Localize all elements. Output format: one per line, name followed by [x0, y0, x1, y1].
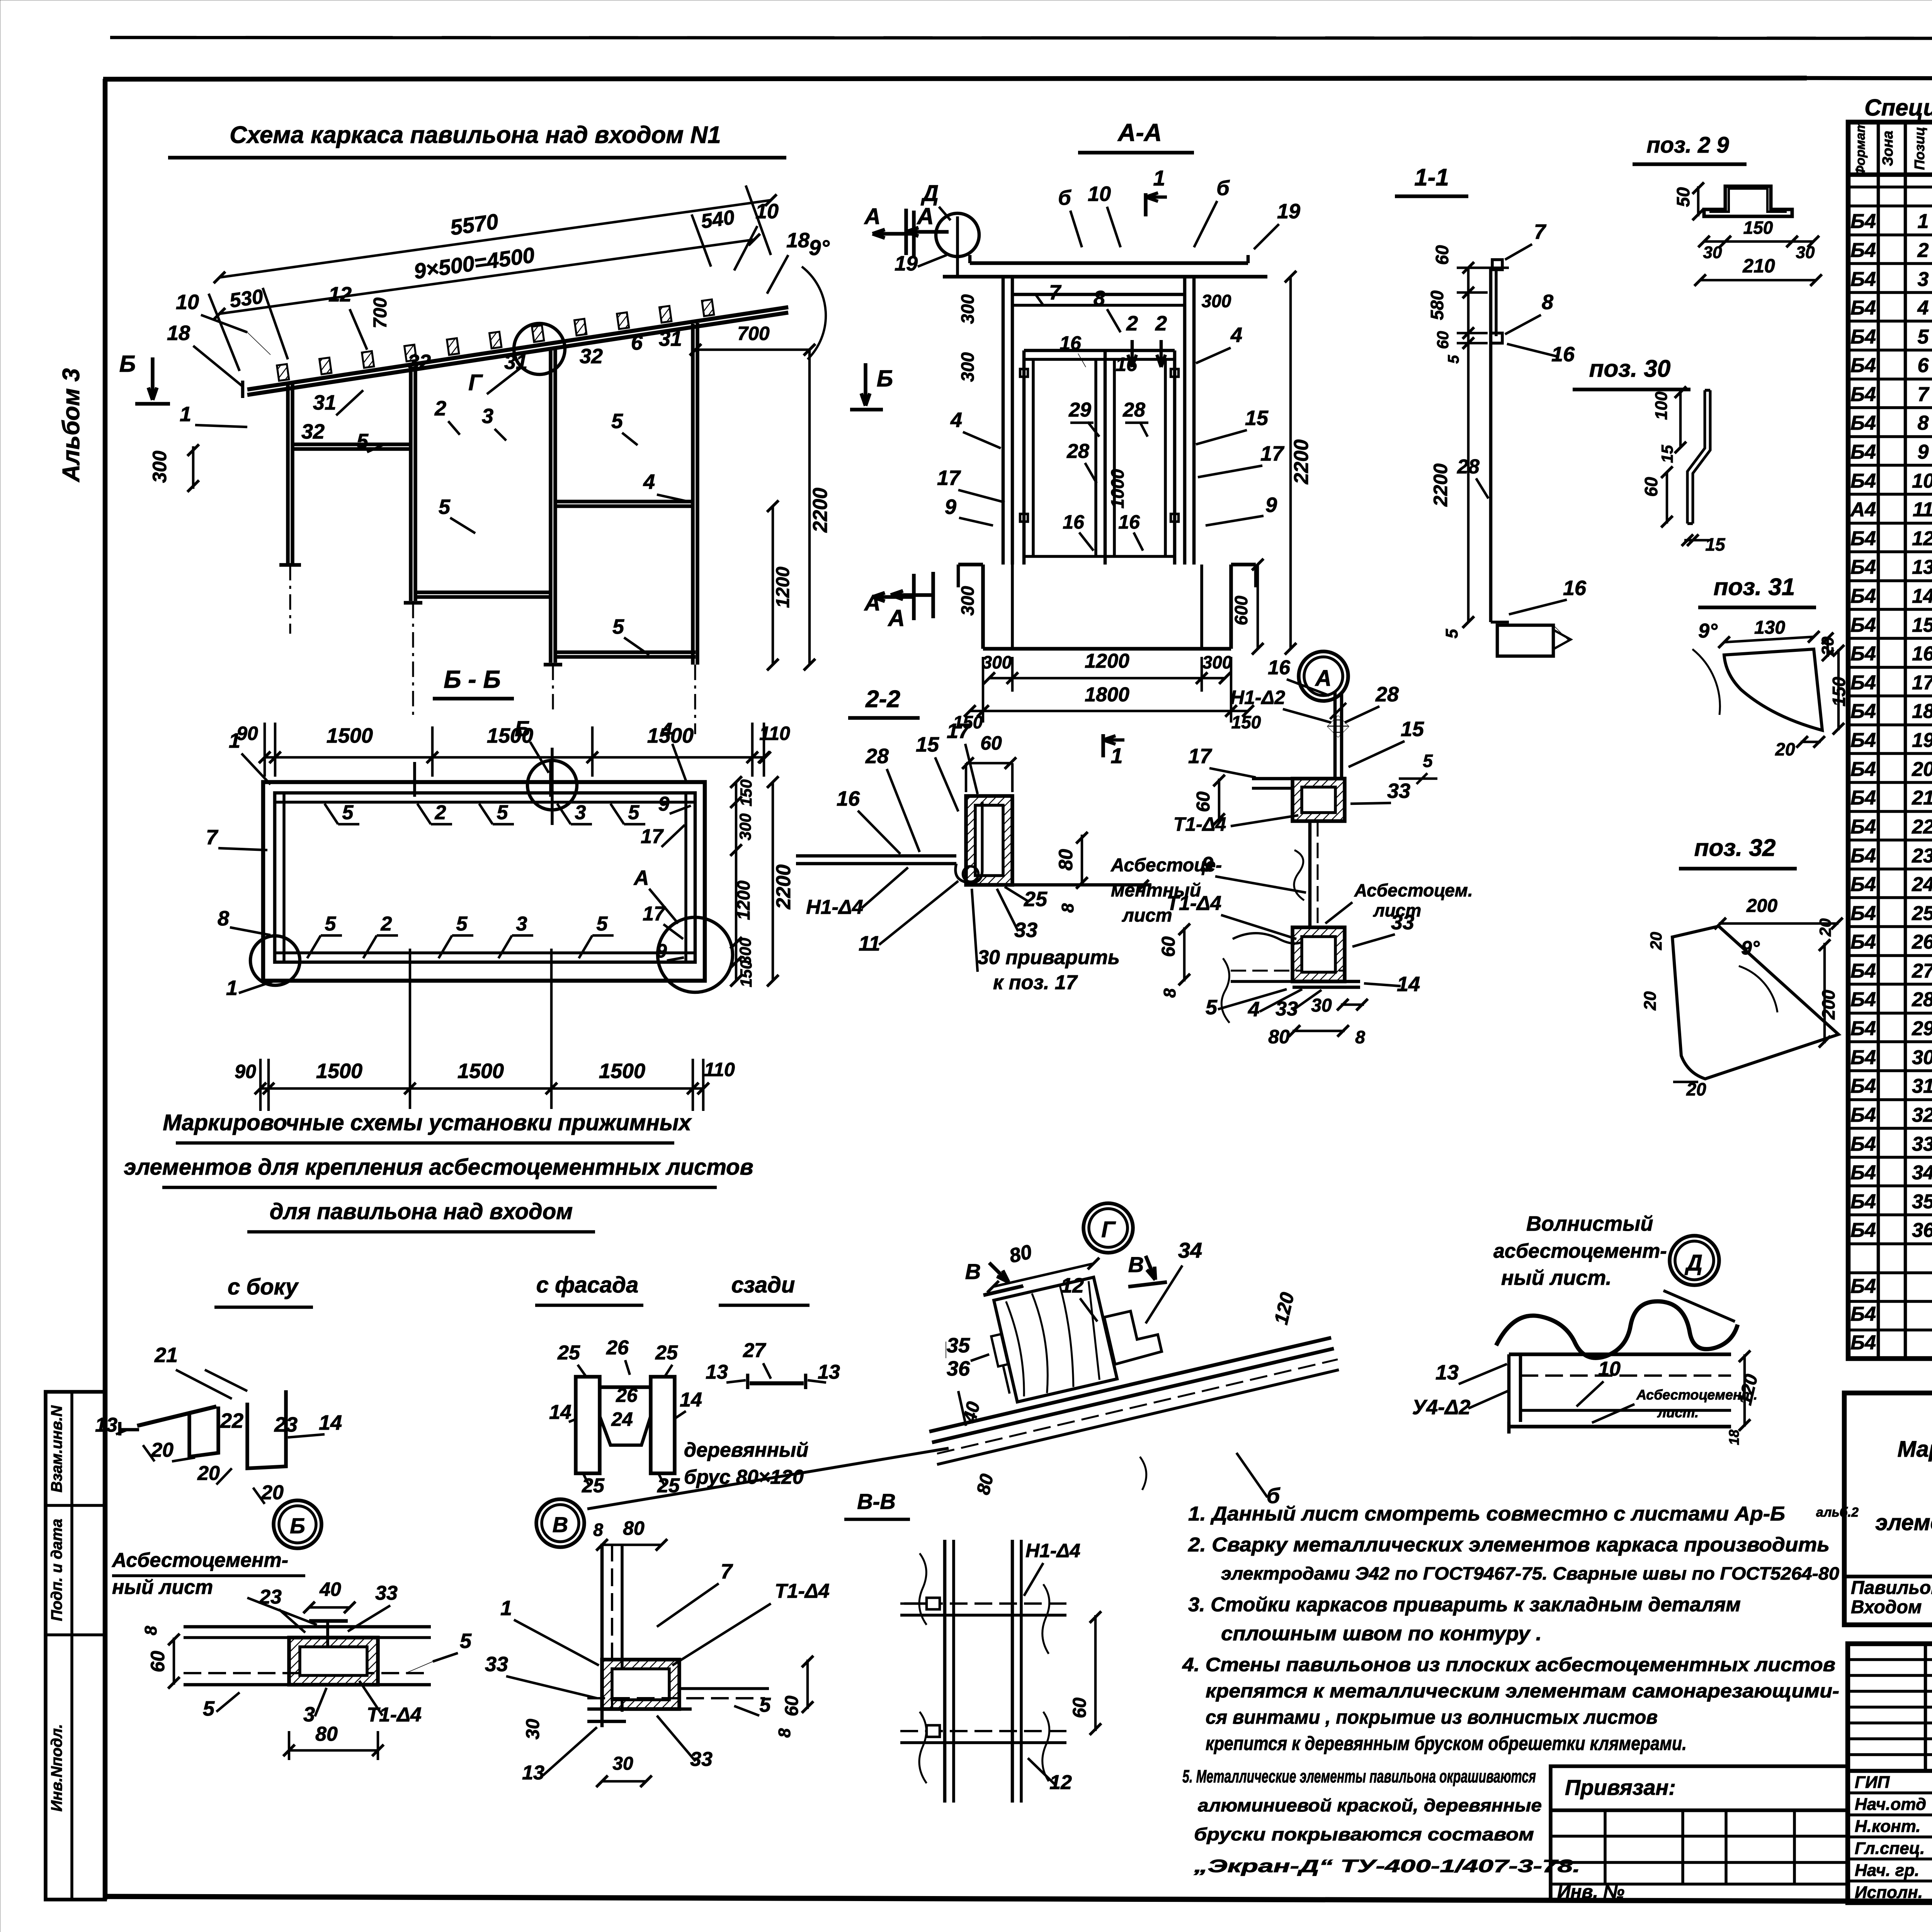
mid column 2 [549, 348, 553, 663]
svg-text:А: А [1315, 666, 1332, 691]
facade scheme columns 25-26-25 [576, 1377, 600, 1473]
svg-text:А: А [916, 203, 934, 229]
svg-text:5. Металлические элементы па: 5. Металлические элементы павильона окра… [1182, 1766, 1536, 1786]
svg-text:9: 9 [658, 793, 670, 815]
svg-text:поз. 2 9: поз. 2 9 [1646, 133, 1729, 158]
svg-text:32: 32 [408, 350, 431, 374]
svg-text:13: 13 [1912, 556, 1932, 578]
svg-text:Б4: Б4 [1850, 988, 1876, 1011]
svg-text:18: 18 [1726, 1430, 1742, 1445]
svg-text:Исполн.: Исполн. [1855, 1883, 1923, 1902]
svg-text:28: 28 [1375, 683, 1399, 706]
svg-text:сзади: сзади [731, 1272, 795, 1298]
svg-text:13: 13 [1435, 1361, 1459, 1384]
svg-text:поз. 31: поз. 31 [1714, 574, 1795, 600]
svg-text:ный лист: ный лист [112, 1576, 213, 1599]
svg-text:28: 28 [1912, 988, 1932, 1011]
svg-text:2: 2 [1917, 239, 1929, 262]
detail D box [1509, 1352, 1731, 1356]
svg-text:Павильон над: Павильон над [1851, 1578, 1932, 1598]
svg-text:90: 90 [235, 1061, 256, 1082]
svg-text:7: 7 [1049, 281, 1062, 304]
svg-text:19: 19 [895, 252, 918, 275]
svg-text:32: 32 [580, 345, 603, 368]
svg-text:В: В [965, 1259, 981, 1284]
B-B bottom dims [260, 1087, 703, 1090]
svg-text:21: 21 [1912, 787, 1932, 809]
svg-text:30: 30 [1912, 1046, 1932, 1069]
svg-text:5: 5 [460, 1629, 472, 1653]
svg-text:Н1-Δ4: Н1-Δ4 [1026, 1540, 1080, 1561]
svg-text:5: 5 [342, 801, 354, 824]
svg-text:30: 30 [1796, 243, 1815, 262]
svg-text:34: 34 [1178, 1238, 1202, 1262]
svg-text:Привязан:: Привязан: [1565, 1775, 1676, 1799]
svg-text:26: 26 [616, 1384, 638, 1406]
A-A top beam [970, 261, 1248, 265]
svg-text:4: 4 [1248, 998, 1260, 1021]
svg-text:300: 300 [1202, 652, 1232, 672]
svg-text:60: 60 [1158, 936, 1179, 957]
svg-text:22: 22 [1912, 816, 1932, 838]
roof clips pos 31/32 [277, 364, 289, 381]
svg-text:40: 40 [319, 1578, 341, 1600]
svg-text:150: 150 [1231, 712, 1261, 732]
svg-text:300: 300 [957, 586, 978, 616]
svg-text:20: 20 [1912, 758, 1932, 781]
svg-text:7: 7 [721, 1560, 733, 1583]
pos31 plate [1724, 649, 1822, 730]
B-B dim 2200 [772, 782, 774, 981]
svg-text:14: 14 [319, 1411, 342, 1434]
svg-text:Взам.инв.N: Взам.инв.N [48, 1405, 65, 1492]
detail A vertical member [1308, 821, 1312, 927]
svg-text:Инв.Nподл.: Инв.Nподл. [48, 1724, 65, 1812]
svg-text:14: 14 [549, 1401, 571, 1423]
spec table column lines [1877, 122, 1880, 1359]
svg-text:Б4: Б4 [1850, 1275, 1876, 1298]
svg-text:19: 19 [1912, 729, 1932, 752]
svg-text:1200: 1200 [733, 880, 753, 920]
svg-text:15: 15 [916, 733, 939, 756]
svg-text:Б4: Б4 [1850, 1332, 1876, 1354]
svg-text:2: 2 [434, 397, 446, 420]
svg-text:18: 18 [1912, 700, 1932, 723]
svg-text:Б4: Б4 [1850, 845, 1876, 867]
svg-text:16: 16 [1268, 656, 1291, 679]
svg-text:ГИП: ГИП [1855, 1773, 1890, 1792]
svg-text:к поз. 17: к поз. 17 [993, 971, 1078, 994]
svg-text:7: 7 [1918, 383, 1930, 406]
detail A circle [1299, 651, 1348, 701]
svg-text:5: 5 [628, 801, 640, 824]
svg-text:Позиц: Позиц [1912, 127, 1927, 170]
V-V drawing [943, 1540, 947, 1803]
detail B circle [274, 1500, 321, 1548]
svg-text:Схема каркаса павильона над вх: Схема каркаса павильона над входом N1 [230, 122, 721, 148]
svg-text:Б4: Б4 [1850, 268, 1876, 291]
detail A top sheet [1333, 692, 1337, 779]
svg-text:10: 10 [176, 291, 199, 314]
svg-text:8: 8 [1542, 291, 1553, 314]
svg-text:А4: А4 [1850, 498, 1876, 521]
left bottom chord [293, 442, 411, 446]
B-B plan inner rect [275, 793, 695, 962]
detail G bolt [991, 1334, 1014, 1395]
svg-text:8: 8 [775, 1728, 794, 1738]
A-A door leaves [1024, 349, 1175, 352]
svg-text:20: 20 [151, 1439, 173, 1461]
svg-text:1800: 1800 [1085, 684, 1129, 706]
svg-text:60: 60 [1434, 331, 1452, 349]
svg-text:700: 700 [370, 298, 391, 328]
svg-text:15: 15 [1658, 445, 1676, 463]
bottom chord right [555, 655, 696, 659]
svg-text:5: 5 [439, 495, 451, 519]
svg-text:5: 5 [760, 1694, 771, 1716]
privyazan box [1551, 1766, 1848, 1810]
svg-text:с фасада: с фасада [536, 1272, 639, 1298]
svg-text:16: 16 [1063, 511, 1085, 533]
svg-text:8: 8 [141, 1626, 160, 1635]
svg-text:25: 25 [557, 1342, 580, 1364]
svg-text:9: 9 [1202, 853, 1213, 876]
svg-text:32: 32 [301, 420, 325, 443]
svg-text:150: 150 [737, 779, 755, 806]
dim line 9x500=4500 [219, 240, 754, 314]
detail G clip [1104, 1306, 1162, 1364]
svg-text:лист.: лист. [1657, 1405, 1699, 1420]
svg-text:В: В [1128, 1252, 1144, 1277]
svg-text:1-1: 1-1 [1414, 164, 1449, 191]
svg-text:110: 110 [704, 1059, 735, 1080]
svg-text:Марка: Марка [1897, 1437, 1932, 1462]
svg-text:30: 30 [612, 1753, 633, 1774]
svg-text:Зона: Зона [1880, 131, 1896, 166]
svg-text:14: 14 [1397, 973, 1420, 996]
svg-text:16: 16 [1563, 577, 1587, 600]
dim 1200 right [772, 506, 774, 665]
svg-text:1. Данный лист смотреть сов: 1. Данный лист смотреть совместно с лист… [1188, 1503, 1785, 1525]
svg-text:31: 31 [504, 350, 527, 374]
svg-text:9°: 9° [809, 235, 830, 260]
svg-text:Б: Б [515, 716, 530, 741]
svg-text:7: 7 [1534, 220, 1547, 243]
A-A detail D callout [936, 213, 979, 257]
svg-text:6: 6 [631, 331, 643, 354]
svg-text:2200: 2200 [772, 864, 795, 910]
svg-text:31: 31 [659, 327, 682, 350]
svg-text:23: 23 [259, 1586, 282, 1608]
svg-text:13: 13 [818, 1361, 840, 1383]
svg-text:700: 700 [737, 323, 770, 344]
svg-text:5: 5 [611, 410, 623, 433]
svg-text:Б4: Б4 [1850, 614, 1876, 636]
svg-text:300: 300 [957, 352, 978, 382]
spec table row lines [1848, 204, 1932, 207]
svg-text:8: 8 [1058, 903, 1077, 913]
A-A transom [1012, 293, 1185, 296]
svg-text:Входом: Входом [1851, 1597, 1922, 1617]
svg-text:20: 20 [1816, 918, 1834, 937]
svg-text:15: 15 [1245, 406, 1269, 430]
sheet frame bottom border [103, 1896, 1932, 1903]
svg-text:Б4: Б4 [1850, 1075, 1876, 1097]
svg-text:асбестоцемент-: асбестоцемент- [1493, 1240, 1667, 1262]
pos32 plate [1672, 926, 1838, 1079]
svg-text:Б: Б [119, 351, 136, 377]
svg-text:Волнистый: Волнистый [1526, 1212, 1653, 1235]
svg-text:Асбестоцемент-: Асбестоцемент- [111, 1549, 288, 1571]
svg-text:ный лист.: ный лист. [1501, 1266, 1612, 1289]
svg-text:крепится к деревянным бруско: крепится к деревянным бруском обрешетки … [1206, 1733, 1687, 1754]
title block signature rows [1848, 1791, 1932, 1794]
svg-text:210: 210 [1742, 255, 1775, 277]
svg-text:Б4: Б4 [1850, 383, 1876, 406]
mid rail right bay [555, 504, 693, 508]
svg-text:12: 12 [328, 283, 352, 306]
svg-text:23: 23 [1912, 845, 1932, 867]
svg-text:5: 5 [1918, 326, 1929, 348]
1-1 top square 7 [1492, 260, 1502, 270]
svg-text:Т1-Δ4: Т1-Δ4 [1167, 892, 1221, 915]
svg-text:60: 60 [980, 732, 1002, 754]
svg-text:19: 19 [1277, 200, 1300, 223]
svg-text:60: 60 [782, 1696, 802, 1716]
svg-text:Б4: Б4 [1850, 297, 1876, 319]
svg-text:4: 4 [950, 408, 962, 432]
detail B drawing [184, 1625, 431, 1629]
svg-text:Б4: Б4 [1850, 1046, 1876, 1069]
svg-text:1: 1 [180, 403, 191, 426]
left end cap [241, 381, 245, 398]
svg-text:580: 580 [1427, 290, 1447, 320]
svg-text:8: 8 [593, 1520, 603, 1540]
svg-text:Н.конт.: Н.конт. [1855, 1817, 1921, 1836]
svg-text:30 приварить: 30 приварить [978, 946, 1120, 969]
svg-text:крепятся к металлическим эл: крепятся к металлическим элементам самон… [1206, 1680, 1839, 1702]
svg-text:80: 80 [1268, 1026, 1290, 1048]
svg-text:брус 80×120: брус 80×120 [684, 1466, 804, 1488]
svg-text:3. Стойки каркасов приварить: 3. Стойки каркасов приварить к закладным… [1188, 1594, 1741, 1616]
svg-text:Б4: Б4 [1850, 556, 1876, 578]
svg-text:31: 31 [313, 391, 336, 414]
svg-text:1200: 1200 [1085, 650, 1129, 672]
svg-text:Б4: Б4 [1850, 643, 1876, 665]
1-1 member [1489, 267, 1493, 622]
svg-text:11: 11 [859, 932, 880, 955]
svg-text:Б4: Б4 [1850, 412, 1876, 434]
B-B inner lines [282, 793, 286, 962]
svg-text:300: 300 [736, 813, 754, 840]
detail G drawing [929, 1338, 1331, 1432]
svg-text:28: 28 [1122, 399, 1145, 421]
svg-text:4. Стены павильонов из плоск: 4. Стены павильонов из плоских асбестоце… [1182, 1654, 1835, 1675]
svg-text:10: 10 [1088, 182, 1111, 206]
svg-text:13: 13 [522, 1762, 544, 1784]
svg-text:300: 300 [982, 652, 1012, 672]
svg-text:Б4: Б4 [1850, 1017, 1876, 1040]
pos29 hat profile [1704, 186, 1792, 216]
svg-text:Б4: Б4 [1850, 1104, 1876, 1126]
svg-text:А: А [864, 204, 881, 229]
dim 700 right [696, 349, 810, 351]
svg-text:6: 6 [1918, 354, 1929, 377]
svg-text:Г: Г [468, 370, 483, 395]
svg-text:17: 17 [1912, 672, 1932, 694]
svg-text:21: 21 [154, 1344, 178, 1367]
B-B plan outer rect [263, 782, 705, 981]
svg-text:80: 80 [623, 1517, 645, 1539]
svg-text:3: 3 [482, 405, 493, 428]
svg-text:22: 22 [220, 1409, 243, 1432]
svg-text:28: 28 [1066, 440, 1089, 463]
svg-text:В-В: В-В [857, 1489, 896, 1514]
2-2 sheet lines [796, 854, 956, 858]
svg-text:5: 5 [456, 913, 468, 935]
svg-text:1: 1 [1111, 743, 1122, 768]
svg-text:б: б [1058, 186, 1071, 209]
svg-text:15: 15 [1401, 718, 1424, 741]
svg-text:150: 150 [737, 960, 755, 987]
svg-text:3: 3 [575, 801, 586, 824]
svg-text:20: 20 [1775, 739, 1795, 759]
svg-text:2200: 2200 [809, 488, 832, 533]
svg-text:2. Сварку металлических элем: 2. Сварку металлических элементов каркас… [1188, 1534, 1830, 1556]
left column axis [289, 565, 291, 634]
svg-text:33: 33 [1387, 779, 1410, 803]
svg-text:Нач. гр.: Нач. гр. [1855, 1861, 1919, 1880]
dim line 5570 [219, 200, 771, 277]
svg-text:15: 15 [1912, 614, 1932, 636]
1-1 mid square 8 [1491, 333, 1502, 343]
svg-text:30: 30 [523, 1719, 543, 1740]
svg-text:16: 16 [837, 787, 860, 810]
svg-text:4: 4 [660, 719, 672, 742]
svg-text:26: 26 [1912, 931, 1932, 953]
svg-text:Нач.отд: Нач.отд [1855, 1795, 1926, 1814]
spec table header row [1848, 172, 1932, 177]
svg-text:11: 11 [1913, 498, 1932, 521]
svg-text:16: 16 [1912, 643, 1932, 665]
inv table [1549, 1810, 1553, 1903]
svg-text:300: 300 [957, 294, 978, 324]
svg-text:28: 28 [865, 745, 889, 768]
svg-text:24: 24 [1912, 873, 1932, 896]
svg-text:Н1-Δ2: Н1-Δ2 [1230, 687, 1285, 708]
svg-text:„Экран-Д“ ТУ-400-1/407-3-78.: „Экран-Д“ ТУ-400-1/407-3-78. [1193, 1856, 1580, 1876]
svg-text:элементов для крепления асб: элементов для крепления асбестоцементных… [124, 1155, 753, 1180]
B-B detail circle top [527, 760, 577, 810]
svg-text:13: 13 [95, 1414, 117, 1436]
svg-text:ся винтами , покрытие из во: ся винтами , покрытие из волнистых листо… [1206, 1706, 1658, 1728]
svg-text:80: 80 [1055, 849, 1077, 871]
svg-text:17: 17 [937, 466, 961, 490]
svg-text:1000: 1000 [1107, 469, 1128, 509]
svg-text:А: А [633, 866, 649, 889]
svg-text:16: 16 [1116, 354, 1138, 375]
svg-text:36: 36 [947, 1357, 970, 1380]
svg-text:У4-Δ2: У4-Δ2 [1412, 1396, 1471, 1419]
svg-text:Д: Д [920, 181, 939, 206]
svg-text:33: 33 [1912, 1133, 1932, 1155]
svg-text:Н1-Δ4: Н1-Δ4 [806, 896, 863, 918]
svg-text:Г: Г [1101, 1217, 1116, 1242]
svg-text:30: 30 [1703, 243, 1722, 262]
svg-text:33: 33 [485, 1653, 508, 1676]
svg-text:20: 20 [197, 1462, 220, 1485]
svg-text:10: 10 [1598, 1358, 1621, 1380]
svg-text:5: 5 [1206, 996, 1218, 1019]
svg-text:1200: 1200 [773, 566, 793, 608]
svg-text:4: 4 [643, 470, 655, 493]
svg-text:алюминиевой краской, деревянн: алюминиевой краской, деревянные [1198, 1795, 1542, 1815]
svg-text:8: 8 [1355, 1027, 1365, 1047]
svg-text:20: 20 [1647, 932, 1665, 951]
svg-text:300: 300 [1202, 291, 1231, 311]
detail V drawing [600, 1544, 604, 1727]
svg-text:29: 29 [1068, 399, 1091, 421]
svg-text:Б4: Б4 [1850, 816, 1876, 838]
svg-text:9: 9 [1265, 493, 1277, 517]
title block outer [1848, 1644, 1932, 1903]
svg-text:2200: 2200 [1430, 463, 1451, 507]
svg-text:Б4: Б4 [1850, 1162, 1876, 1184]
svg-text:3: 3 [1918, 268, 1929, 291]
2-2 clamp hook [956, 802, 982, 883]
right column [691, 324, 695, 665]
svg-text:13: 13 [706, 1361, 728, 1383]
detail D circle [1670, 1236, 1719, 1285]
mid column 1 [409, 367, 413, 601]
svg-text:Б4: Б4 [1850, 758, 1876, 781]
svg-text:60: 60 [147, 1651, 168, 1672]
svg-text:2: 2 [381, 913, 392, 935]
svg-text:Д: Д [1684, 1250, 1702, 1276]
svg-text:17: 17 [1188, 745, 1213, 768]
svg-text:Б4: Б4 [1850, 470, 1876, 492]
scheme bottom dims [265, 756, 765, 759]
svg-text:Гл.спец.: Гл.спец. [1855, 1839, 1925, 1858]
svg-text:33: 33 [1391, 911, 1414, 934]
svg-text:Б4: Б4 [1850, 354, 1876, 377]
svg-text:Б4: Б4 [1850, 210, 1876, 233]
svg-text:Б4: Б4 [1850, 960, 1876, 982]
svg-text:14: 14 [680, 1389, 702, 1411]
svg-text:В: В [553, 1512, 568, 1537]
svg-text:14: 14 [1912, 585, 1932, 607]
spec table title top line [1807, 78, 1932, 79]
pos30 z profile [1687, 390, 1710, 524]
svg-text:электродами Э42 по ГОСТ946: электродами Э42 по ГОСТ9467-75. Сварные … [1221, 1563, 1839, 1583]
svg-text:540: 540 [700, 206, 736, 233]
B-B detail circle bottom left [250, 936, 300, 985]
detail G wood block [994, 1277, 1117, 1402]
svg-text:9°: 9° [1741, 937, 1760, 959]
svg-text:80: 80 [315, 1723, 338, 1745]
svg-text:27: 27 [1912, 960, 1932, 982]
svg-text:Б4: Б4 [1850, 239, 1876, 262]
svg-text:поз. 30: поз. 30 [1589, 355, 1671, 382]
svg-text:деревянный: деревянный [684, 1439, 808, 1461]
svg-text:7: 7 [206, 826, 219, 849]
svg-text:Б4: Б4 [1850, 787, 1876, 809]
svg-text:17: 17 [643, 903, 666, 925]
svg-text:4: 4 [1230, 323, 1242, 347]
svg-text:Т1-Δ4: Т1-Δ4 [775, 1580, 830, 1602]
mid bottom chord [415, 595, 551, 599]
B-B axis marks top [413, 762, 416, 797]
